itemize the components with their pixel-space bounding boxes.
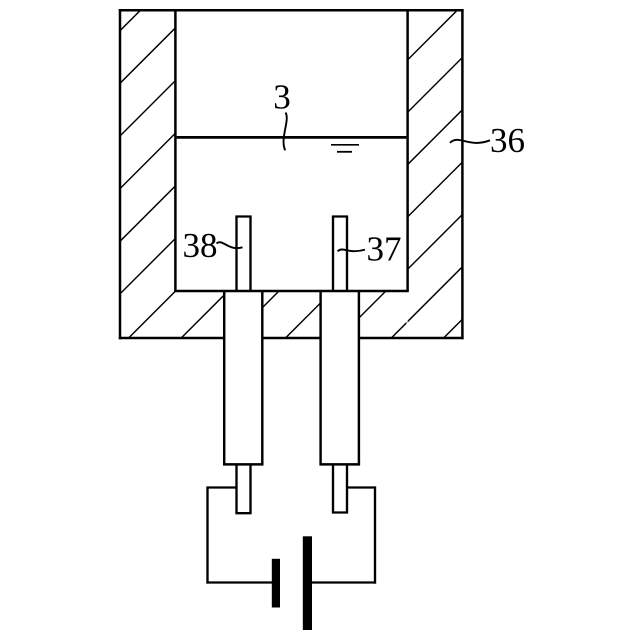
svg-text:3: 3 [273,78,291,117]
wire: right vertical [374,486,376,583]
right lower thin stem [332,464,348,512]
vessel outer wall: left line [119,9,122,339]
vessel inner wall: right edge [406,10,409,291]
wire: left horizontal from stem [208,486,237,488]
vessel inner bottom line [174,290,409,293]
liquid surface mark lower dash [337,151,352,153]
liquid surface mark upper dash [331,144,359,146]
svg-text:37: 37 [367,230,402,269]
wire: left vertical [206,486,208,583]
svg-text:38: 38 [183,226,218,265]
vessel outer wall: right line [461,9,464,339]
wire: bottom right segment from battery [309,581,376,583]
wire: right horizontal to stem [347,486,375,488]
leader for label 36 [450,140,490,143]
leader for label 37 [338,249,365,251]
vessel outer wall: bottom line segments (interrupted by rods) [119,337,224,340]
vessel outer wall: top line [119,9,464,12]
left lower thin stem [235,464,251,513]
electrode 37 (right thin electrode in cell) [332,217,348,292]
vessel inner wall: left edge [174,10,177,291]
electrode 38 (left thin electrode in cell) [235,217,251,292]
wire: bottom left segment to battery [206,581,274,583]
liquid level line (melt surface, item 3) [177,136,407,139]
leader for label 3 [284,113,287,151]
svg-text:36: 36 [490,121,525,160]
hatching: left wall + bottom-left wall section [0,0,519,550]
leader for label 38 [217,242,243,248]
battery negative plate (short thick bar) [272,559,280,608]
right thick rod through bottom wall [319,291,360,464]
battery positive plate (long thick bar) [303,536,312,630]
left thick rod through bottom wall [223,291,264,464]
